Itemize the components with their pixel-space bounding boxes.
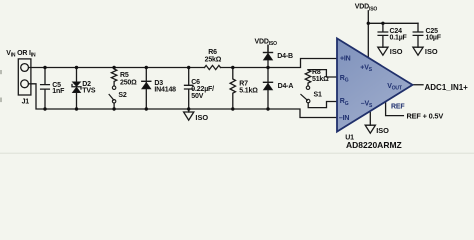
- junction bottom rail / C5: [43, 107, 46, 110]
- svg-text:–IN: –IN: [339, 115, 349, 122]
- svg-text:+IN: +IN: [340, 56, 351, 63]
- capacitor C5: [41, 68, 50, 110]
- svg-text:AD8220ARMZ: AD8220ARMZ: [346, 140, 402, 150]
- svg-text:R6: R6: [208, 49, 217, 56]
- op-amp U1 AD8220ARMZ: [337, 38, 413, 131]
- svg-text:S1: S1: [314, 91, 322, 98]
- capacitor C25: [413, 23, 423, 47]
- junction bottom rail / R7: [231, 107, 234, 110]
- junction top rail / D3: [145, 66, 148, 69]
- svg-text:ISO: ISO: [390, 47, 403, 56]
- diode D4-A: [264, 68, 273, 110]
- svg-text:TVS: TVS: [82, 88, 96, 95]
- ground ISO (C24): [378, 47, 388, 55]
- junction VDD branch / C24: [381, 22, 384, 25]
- svg-text:REF: REF: [391, 103, 405, 110]
- junction bottom rail / D4: [266, 107, 269, 110]
- junction VDD branch / main: [367, 22, 370, 25]
- svg-text:250Ω: 250Ω: [120, 79, 137, 86]
- resistor R8: [305, 70, 310, 86]
- svg-text:ISO: ISO: [376, 126, 389, 135]
- svg-text:D4-A: D4-A: [278, 83, 294, 90]
- svg-text:D4-B: D4-B: [277, 53, 293, 60]
- junction top rail / C6: [187, 66, 190, 69]
- svg-text:IN4148: IN4148: [154, 87, 176, 94]
- svg-text:10µF: 10µF: [426, 35, 442, 42]
- svg-text:ISO: ISO: [425, 47, 438, 56]
- junction top rail / R5: [112, 66, 115, 69]
- junction top rail / C5: [43, 66, 46, 69]
- svg-text:R7: R7: [239, 80, 248, 87]
- switch S2: [109, 86, 116, 109]
- svg-text:1nF: 1nF: [52, 88, 65, 95]
- wire top rail (+IN net): [29, 59, 338, 68]
- svg-text:ADC1_IN1+: ADC1_IN1+: [425, 83, 469, 92]
- svg-text:R8: R8: [312, 69, 321, 76]
- svg-text:0.1µF: 0.1µF: [390, 35, 408, 42]
- connector J1: [18, 59, 31, 95]
- svg-text:ISO: ISO: [195, 113, 208, 122]
- TVS diode D2: [72, 68, 81, 110]
- resistor R7: [230, 68, 235, 110]
- capacitor C6: [185, 68, 193, 110]
- junction bottom rail / D3: [145, 107, 148, 110]
- diode D4-B: [264, 45, 273, 67]
- resistor R6: [205, 65, 221, 69]
- wire VOUT output: [413, 84, 424, 86]
- wire VDD_ISO to D4-B: [267, 45, 269, 52]
- wire bottom rail (-IN net): [29, 84, 338, 118]
- svg-text:5.1kΩ: 5.1kΩ: [239, 87, 258, 94]
- svg-text:25kΩ: 25kΩ: [205, 56, 222, 63]
- capacitor C24: [378, 23, 388, 47]
- switch S1: [301, 86, 310, 103]
- junction top rail / R7: [231, 66, 234, 69]
- junction bottom rail / S2: [112, 107, 115, 110]
- svg-text:REF + 0.5V: REF + 0.5V: [407, 111, 444, 120]
- ground ISO (C25): [413, 47, 423, 55]
- svg-text:S2: S2: [118, 92, 126, 99]
- junction top rail / D2: [75, 66, 78, 69]
- svg-text:50V: 50V: [191, 93, 203, 100]
- wire S1 bottom hook to RG pin: [308, 102, 337, 108]
- ground ISO (-VS): [365, 125, 375, 133]
- wire -VS to ground: [369, 113, 371, 126]
- ground ISO (C6): [184, 109, 194, 120]
- svg-text:51kΩ: 51kΩ: [312, 76, 329, 83]
- junction top rail / D4: [266, 66, 269, 69]
- svg-text:R5: R5: [120, 72, 129, 79]
- svg-text:J1: J1: [22, 99, 30, 106]
- junction bottom rail / C6: [187, 107, 190, 110]
- resistor R5: [111, 68, 116, 87]
- wire VDD_ISO rail (right): [368, 11, 418, 58]
- diode D3: [142, 68, 151, 110]
- wire R8 top hook to RG pin: [308, 70, 337, 77]
- edge artifact marks: [0, 70, 2, 74]
- wire REF output: [386, 101, 404, 115]
- junction bottom rail / D2: [75, 107, 78, 110]
